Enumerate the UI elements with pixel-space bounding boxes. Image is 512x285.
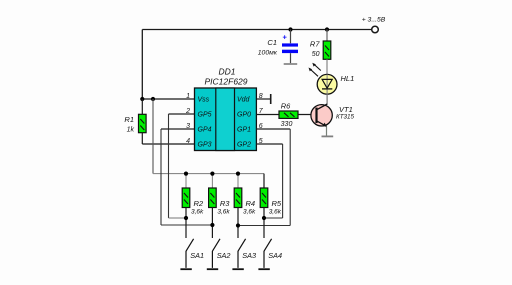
svg-text:1: 1 <box>186 93 190 100</box>
resistor R6 330 <box>279 102 298 128</box>
svg-text:3,6k: 3,6k <box>191 208 204 215</box>
svg-text:R3: R3 <box>220 199 230 208</box>
svg-text:C1: C1 <box>267 38 277 47</box>
wire: pin7 GP0 to R6 <box>256 114 279 116</box>
svg-text:50: 50 <box>312 51 320 58</box>
svg-text:SA4: SA4 <box>268 251 282 260</box>
svg-text:2: 2 <box>185 108 190 115</box>
node: R4 bottom dot <box>236 223 240 227</box>
svg-text:R6: R6 <box>281 102 291 111</box>
svg-text:GP0: GP0 <box>237 112 251 119</box>
ground: C1 ground bar <box>284 63 298 65</box>
svg-text:1k: 1k <box>127 127 135 134</box>
resistor R4 3,6k <box>234 174 256 238</box>
node: bus dot R4 <box>236 172 240 176</box>
LED HL1 <box>309 63 355 94</box>
switch SA4 <box>258 239 282 269</box>
resistor R2 3,6k <box>182 174 204 238</box>
switch SA2 <box>207 239 231 269</box>
svg-text:SA2: SA2 <box>217 251 231 260</box>
node: bus dot R2 <box>184 172 188 176</box>
wire: pin6 GP1 wire and drop to R4 <box>238 129 290 226</box>
svg-text:SA3: SA3 <box>242 251 256 260</box>
wire: pin3 GP4 wire and drop to R3 <box>161 129 212 225</box>
resistor R1 1k <box>124 99 146 144</box>
svg-text:PIC12F629: PIC12F629 <box>205 77 248 87</box>
node: junction at R1 top <box>140 97 144 101</box>
node: R5 bottom dot <box>262 216 266 220</box>
ground: pin8 terminator bar <box>270 94 272 104</box>
svg-text:4: 4 <box>186 138 190 145</box>
wire: pin1 Vss wire <box>142 98 194 100</box>
capacitor C1 100mk <box>258 30 298 64</box>
svg-text:R7: R7 <box>310 40 320 49</box>
svg-text:R5: R5 <box>272 199 282 208</box>
resistor R5 3,6k <box>260 174 282 238</box>
wire: VT1 emitter down <box>326 126 328 135</box>
node: bus dot R3 <box>210 172 214 176</box>
svg-text:КТ315: КТ315 <box>336 114 355 121</box>
wire: R6 to VT1 base <box>298 114 316 116</box>
svg-text:100мк: 100мк <box>258 50 278 57</box>
svg-text:DD1: DD1 <box>218 66 235 76</box>
node: R3 bottom dot <box>210 223 214 227</box>
wire: pin2 GP5 wire and drop to R2 <box>169 114 195 218</box>
svg-text:HL1: HL1 <box>341 74 355 83</box>
svg-text:GP4: GP4 <box>198 127 212 134</box>
svg-text:Vdd: Vdd <box>237 97 251 104</box>
svg-text:GP3: GP3 <box>198 142 212 149</box>
wire: bus vertical drop from pin1 node <box>152 99 154 174</box>
svg-text:R4: R4 <box>246 199 256 208</box>
svg-text:GP2: GP2 <box>237 142 251 149</box>
wire: pin5 GP2 wire and drop to R5 <box>256 144 282 218</box>
op-amp U1 : IC DD1 PIC12F629 body <box>195 66 257 150</box>
wire: pin4 GP3 wire <box>142 143 194 145</box>
node: junction R7 on rail <box>325 27 329 31</box>
terminal +3...5V <box>362 17 386 33</box>
wire: pin8 Vdd stub <box>256 98 270 100</box>
svg-text:+ 3...5В: + 3...5В <box>362 17 386 24</box>
node: junction C1 on rail <box>288 27 292 31</box>
svg-text:Vss: Vss <box>198 97 210 104</box>
switch SA1 <box>180 239 204 269</box>
svg-text:3,6k: 3,6k <box>217 208 230 215</box>
wire: +V top rail <box>142 29 371 31</box>
transistor VT1 KT315 <box>311 104 355 127</box>
svg-text:GP1: GP1 <box>237 127 251 134</box>
node: R2 bottom dot <box>184 216 188 220</box>
svg-text:GP5: GP5 <box>198 112 212 119</box>
svg-text:3: 3 <box>186 123 190 130</box>
svg-text:+: + <box>283 33 288 42</box>
resistor R7 50 <box>310 30 331 75</box>
svg-text:R1: R1 <box>124 115 134 124</box>
resistor R3 3,6k <box>209 174 231 238</box>
svg-text:R2: R2 <box>194 199 204 208</box>
svg-text:3,6k: 3,6k <box>243 208 256 215</box>
svg-text:330: 330 <box>281 121 293 128</box>
ground: VT1 emitter ground bar <box>322 135 334 137</box>
svg-text:SA1: SA1 <box>190 251 204 260</box>
wire: LED to VT1 collector <box>326 94 328 105</box>
wire: left vertical drop from rail <box>141 30 143 100</box>
switch SA3 <box>232 239 256 269</box>
svg-text:3,6k: 3,6k <box>269 208 282 215</box>
wire: resistor top bus <box>153 173 264 175</box>
node: junction bus drop <box>151 97 155 101</box>
